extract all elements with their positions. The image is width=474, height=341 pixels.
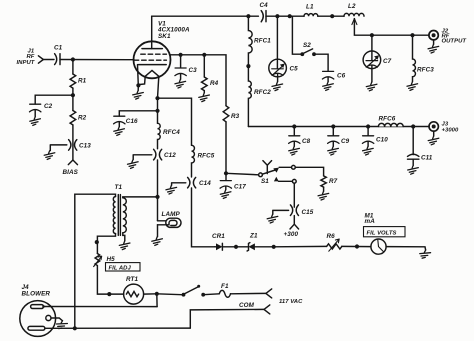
inductor L2 (344, 13, 364, 16)
svg-text:RFC3: RFC3 (417, 67, 434, 74)
ground C11 (408, 166, 419, 175)
wire R1 to node (72, 88, 74, 95)
svg-text:Z1: Z1 (249, 233, 258, 240)
rheostat H5 (95, 254, 109, 295)
svg-text:C9: C9 (341, 138, 350, 145)
switch AC (157, 293, 182, 296)
svg-text:L1: L1 (306, 3, 314, 10)
svg-text:FIL ADJ: FIL ADJ (109, 265, 132, 271)
node top S2 (288, 14, 292, 18)
capacitor C3 (180, 55, 182, 68)
wire R2 to C13 (72, 125, 74, 160)
capacitor C7 variable (371, 35, 373, 60)
wire J1 to C1 (43, 59, 54, 61)
ground C6 (323, 82, 334, 91)
wire C4 to L1 (266, 15, 304, 17)
svg-text:RFC2: RFC2 (254, 89, 271, 96)
node bottom line (73, 326, 77, 330)
wire node to S1 (226, 173, 259, 175)
ground R4 (199, 93, 210, 102)
connector J4 blower plug (20, 301, 56, 337)
connector 117 VAC (266, 289, 272, 298)
svg-text:INPUT: INPUT (17, 60, 36, 66)
wire J4 top slot to blower tap (44, 306, 157, 308)
wire RFC2 to HV line (248, 126, 294, 128)
node C7 (370, 33, 374, 37)
svg-text:C2: C2 (44, 103, 53, 110)
svg-text:R3: R3 (231, 113, 240, 120)
svg-text:R2: R2 (78, 114, 87, 121)
label FIL VOLTS box (364, 227, 406, 237)
wire COM line (190, 309, 264, 328)
capacitor C10 (367, 127, 369, 136)
node filament (155, 96, 159, 100)
switch S2 (292, 16, 300, 54)
ground R7 (318, 191, 329, 200)
transformer T1 primary (113, 197, 115, 234)
ground C9 (328, 146, 339, 155)
wire L1 to L2 (318, 15, 344, 17)
inductor RFC2 (248, 66, 251, 126)
wire C1 to grid (60, 59, 134, 61)
wire S2 to C6 (314, 54, 328, 71)
svg-text:+300: +300 (284, 231, 299, 238)
thermistor RT1 (109, 293, 123, 295)
svg-text:C14: C14 (199, 180, 211, 187)
svg-text:CR1: CR1 (212, 233, 225, 240)
capacitor C14 feedthrough (188, 177, 196, 188)
inductor L1 (304, 14, 318, 17)
capacitor C15 feedthrough (290, 205, 298, 216)
svg-text:BIAS: BIAS (63, 169, 79, 176)
svg-text:C8: C8 (302, 138, 311, 145)
node top C5 (275, 14, 279, 18)
label FIL ADJ box (106, 263, 141, 271)
wire T1 primary bottom (97, 234, 115, 254)
connector J2 (429, 31, 438, 40)
ground cathode (133, 91, 144, 100)
svg-text:C4: C4 (260, 2, 269, 9)
node R3/C17/S1 (224, 171, 228, 175)
svg-text:H5: H5 (107, 256, 116, 263)
node C3 (179, 53, 183, 57)
svg-text:C6: C6 (337, 73, 346, 80)
wire plate lead (151, 16, 153, 48)
ground C5 (272, 82, 283, 91)
wire filament down (157, 98, 159, 123)
svg-text:C10: C10 (376, 137, 388, 144)
node C9 (331, 124, 335, 128)
wire T1 secondary top (123, 196, 158, 199)
wire filament node line (158, 98, 192, 145)
node RFC3 (410, 33, 414, 37)
diode CR1 (215, 246, 216, 248)
resistor R6 (327, 244, 342, 249)
wire T1 primary top (75, 194, 116, 328)
capacitor C12 feedthrough (154, 149, 162, 160)
wire J4 bottom slot line (45, 327, 190, 329)
svg-text:R7: R7 (329, 178, 338, 185)
wire to C16 (119, 111, 157, 116)
svg-text:C11: C11 (421, 155, 433, 162)
node C16 (155, 109, 159, 113)
connector J3 (429, 122, 438, 131)
resistor R3 (223, 106, 229, 122)
svg-text:RFC1: RFC1 (254, 38, 271, 45)
ground C8 (289, 146, 300, 155)
ground RFC3 (407, 82, 418, 91)
ground J3 (428, 136, 439, 145)
ground meter (419, 249, 431, 259)
capacitor C4 (261, 11, 266, 22)
capacitor C16 (114, 116, 125, 124)
inductor RFC1 (248, 16, 252, 66)
capacitor C13 feedthrough (69, 140, 77, 151)
wire switch to F1 (203, 293, 219, 296)
ground C10 (363, 146, 374, 155)
ground C15 (267, 214, 278, 223)
svg-text:C7: C7 (383, 58, 392, 65)
filament of V1 (145, 71, 159, 77)
node RT1/blower (155, 292, 159, 296)
wire cathode lead down (138, 65, 146, 91)
wire R6 to meter (342, 245, 371, 247)
grid G2 dashes (141, 53, 167, 55)
meter M1 (371, 239, 386, 254)
ground C12 (127, 160, 138, 169)
ground C17 (220, 190, 231, 199)
capacitor C9 (332, 127, 334, 136)
svg-text:C12: C12 (164, 152, 176, 159)
capacitor C6 (322, 71, 333, 79)
capacitor C1 (55, 54, 60, 65)
wire node to R2 (72, 95, 74, 110)
wire S1 upper throw to R7 (279, 167, 323, 176)
svg-text:C17: C17 (234, 184, 246, 191)
ground C14 (166, 185, 177, 194)
svg-text:SK1: SK1 (158, 33, 171, 40)
node R1/R2/C2 (71, 93, 75, 97)
inductor RFC3 (413, 35, 416, 81)
wire node to C2 (35, 95, 73, 104)
wire screen grid line (170, 55, 226, 106)
node Z1/R6 (272, 245, 276, 249)
lamp (158, 220, 166, 222)
node BIAS (68, 160, 77, 165)
ground C2 (30, 117, 41, 126)
resistor R7 (321, 176, 326, 187)
svg-text:R6: R6 (327, 233, 336, 240)
wire RFC5 line down to metering (192, 188, 215, 247)
cathode of V1 (139, 64, 167, 66)
svg-text:C16: C16 (126, 118, 138, 125)
svg-text:mA: mA (365, 218, 376, 225)
svg-text:R4: R4 (210, 80, 219, 87)
inductor RFC4 (158, 123, 161, 149)
wire L2 tap (354, 25, 429, 36)
svg-text:F1: F1 (221, 283, 229, 290)
fuse F1 (219, 290, 230, 297)
svg-text:RFC5: RFC5 (198, 153, 215, 160)
node R4 (202, 53, 206, 57)
svg-text:FIL VOLTS: FIL VOLTS (367, 231, 397, 237)
node CR1/Z1 (234, 245, 238, 249)
diode Z1 zener (236, 246, 249, 248)
ground T1 secondary (119, 241, 130, 250)
inductor RFC5 (192, 145, 195, 177)
node C10 (366, 124, 370, 128)
svg-text:RF: RF (27, 54, 35, 60)
wire R3 down (225, 122, 227, 174)
node cathode junction (136, 83, 140, 87)
svg-text:COM: COM (239, 302, 255, 309)
wire top plate line (152, 15, 259, 17)
wire HV +3000 line (294, 126, 429, 128)
svg-text:S2: S2 (303, 42, 311, 49)
node T1/H5 (95, 240, 99, 244)
ground J2 (428, 44, 439, 53)
svg-text:C5: C5 (290, 66, 299, 73)
capacitor C5 variable (276, 16, 278, 68)
svg-text:T1: T1 (115, 184, 123, 191)
ground J4 (56, 320, 68, 330)
node +300 entry (290, 216, 299, 229)
transformer T1 secondary (123, 198, 127, 233)
wire S1 lower throw to +300 (278, 181, 294, 207)
svg-text:RT1: RT1 (126, 276, 138, 283)
node top RFC1 (246, 14, 250, 18)
ground C13 (44, 151, 55, 160)
plate of V1 (142, 48, 162, 50)
resistor R1 (70, 74, 76, 88)
svg-text:C3: C3 (189, 67, 198, 74)
svg-text:OUTPUT: OUTPUT (442, 39, 468, 45)
node after C1 (71, 57, 75, 61)
grid G1 dashes (134, 59, 166, 61)
ground C16 (114, 127, 125, 136)
node R6/M1 (355, 244, 359, 248)
capacitor C8 (293, 127, 295, 136)
capacitor C17 (225, 173, 227, 180)
ground lamp (152, 237, 163, 246)
transformer T1 core (118, 195, 120, 236)
tube V1 (134, 41, 171, 78)
capacitor C11 (412, 127, 414, 155)
svg-text:C13: C13 (79, 143, 91, 150)
resistor R4 (203, 55, 205, 77)
wire F1 to 117VAC (231, 292, 266, 294)
svg-text:BLOWER: BLOWER (22, 290, 51, 297)
svg-text:RFC4: RFC4 (163, 129, 180, 136)
capacitor C2 (30, 104, 41, 112)
ground C7 (366, 82, 377, 91)
svg-text:C15: C15 (302, 209, 314, 216)
svg-text:+3000: +3000 (442, 128, 459, 134)
ground C3 (175, 79, 186, 88)
connector J1 RF INPUT (38, 56, 43, 63)
node H5/RT1 (107, 292, 111, 296)
wire T1 secondary bottom (123, 233, 125, 241)
node RFC1/RFC2 (246, 64, 250, 68)
wire J4 ground pin (51, 318, 62, 320)
inductor RFC6 (378, 123, 403, 126)
svg-text:LAMP: LAMP (162, 211, 181, 218)
wire to R6 (274, 245, 327, 247)
svg-text:L2: L2 (348, 3, 356, 10)
wire meter to ground (386, 247, 426, 250)
node C11 (411, 124, 415, 128)
wire node to R1 (72, 60, 74, 75)
wire blower tap (156, 294, 158, 307)
svg-text:S1: S1 (261, 178, 269, 185)
svg-text:R1: R1 (78, 78, 87, 85)
svg-text:RFC6: RFC6 (379, 116, 396, 123)
wire filament lead down (158, 76, 159, 98)
node T1/lamp (155, 195, 159, 199)
node C8 (292, 124, 296, 128)
resistor R2 (70, 111, 76, 125)
svg-text:C1: C1 (54, 45, 63, 52)
node before L2 (330, 14, 334, 18)
switch S1 (259, 173, 263, 177)
svg-text:117 VAC: 117 VAC (279, 299, 303, 305)
connector COM (264, 305, 270, 314)
wire RFC4 line down (157, 160, 159, 221)
